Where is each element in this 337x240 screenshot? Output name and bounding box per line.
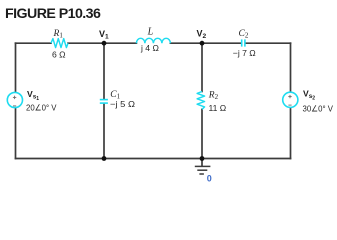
wire C2 to top-right corner xyxy=(246,42,291,44)
svg-text:6 Ω: 6 Ω xyxy=(52,49,66,59)
node V1 xyxy=(102,41,107,46)
capacitor C2 xyxy=(242,39,245,46)
svg-text:−j 5 Ω: −j 5 Ω xyxy=(110,99,136,109)
node junction bottom V1 xyxy=(102,156,107,161)
svg-text:30∠0° V: 30∠0° V xyxy=(303,104,334,114)
resistor R2 xyxy=(197,92,205,110)
node V2 xyxy=(200,41,205,46)
wire L to C2 (through node V2) xyxy=(170,42,241,44)
svg-text:R1: R1 xyxy=(53,29,64,40)
svg-text:11 Ω: 11 Ω xyxy=(209,103,227,113)
svg-text:L: L xyxy=(147,27,154,38)
svg-text:C2: C2 xyxy=(239,29,249,40)
svg-text:FIGURE P10.36: FIGURE P10.36 xyxy=(5,6,101,22)
inductor L xyxy=(136,38,170,43)
wire V2 branch upper xyxy=(201,43,203,91)
ground stub xyxy=(201,159,203,167)
svg-text:20∠0° V: 20∠0° V xyxy=(26,103,57,113)
wire bottom xyxy=(16,158,291,160)
wire left vertical lower xyxy=(15,108,17,159)
wire V2 branch lower xyxy=(201,109,203,158)
resistor R1 xyxy=(51,39,68,48)
node junction bottom V2 xyxy=(200,156,205,161)
ground xyxy=(195,166,211,174)
voltage source Vs1 xyxy=(7,92,22,107)
voltage source Vs2 xyxy=(283,92,298,107)
svg-text:j 4 Ω: j 4 Ω xyxy=(140,43,159,53)
wire right vertical upper xyxy=(290,43,292,92)
wire R1 to L (through node V1) xyxy=(68,42,136,44)
wire V1 branch upper xyxy=(103,43,105,99)
wire left vertical upper xyxy=(15,43,17,93)
wire V1 branch lower xyxy=(103,104,105,159)
wire top-left to R1 xyxy=(16,42,52,44)
svg-text:0: 0 xyxy=(207,174,212,184)
capacitor C1 xyxy=(100,100,108,104)
svg-text:R2: R2 xyxy=(208,91,219,102)
wire right vertical lower xyxy=(290,107,292,158)
svg-text:−j 7 Ω: −j 7 Ω xyxy=(233,48,256,58)
